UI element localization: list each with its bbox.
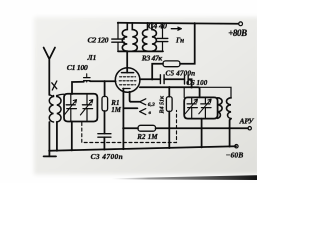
terminal +80V <box>239 22 243 26</box>
IF transformer T2 winding a <box>143 23 148 51</box>
svg-text:R3 47к: R3 47к <box>141 54 163 63</box>
wire anode out <box>140 78 160 80</box>
capacitor C3 <box>98 134 111 150</box>
wire tank top to grid coupling <box>72 82 84 94</box>
wire tank2 left stub <box>183 87 185 97</box>
tube anode <box>122 51 134 72</box>
tank box (right tuned circuit loop) <box>184 97 217 118</box>
svg-text:+80В: +80В <box>228 28 247 38</box>
IF transformer T2 winding b <box>152 23 157 51</box>
capacitor C4 <box>157 23 168 52</box>
wire R1 to C3 <box>104 111 106 134</box>
bottom bus wire <box>49 146 236 150</box>
scan shadow wedge <box>0 0 1 1</box>
coil L3 (right side of tank box) <box>218 98 223 119</box>
coil L4 coupling winding <box>227 97 232 118</box>
bottom rail of IF transformer <box>118 50 163 52</box>
svg-text:R2 1М: R2 1М <box>136 133 158 141</box>
wire C6 drop <box>188 79 191 87</box>
svg-text:R4 51к: R4 51к <box>160 95 166 115</box>
dashed gang link <box>82 111 177 143</box>
wire grid to winding2 top <box>200 87 231 97</box>
tank box (left tuned circuit loop) <box>64 94 97 122</box>
variable capacitor C (right section a) <box>185 97 197 118</box>
AGC wire to ARU terminal <box>156 127 248 129</box>
tube cathode <box>123 88 130 90</box>
svg-text:АРУ: АРУ <box>239 117 255 126</box>
ground <box>44 155 56 157</box>
svg-text:1М: 1М <box>111 106 122 114</box>
coil L1 antenna winding <box>49 96 53 123</box>
variable capacitor C (second section) <box>80 94 92 122</box>
resistor R2 <box>138 125 156 131</box>
variable capacitor C (right section b) <box>199 97 211 118</box>
wire R3 left to screen wire <box>152 64 163 79</box>
heater leads with arrows <box>123 92 145 115</box>
coil L2 grid winding <box>57 96 61 123</box>
wire tank2 bottom to bus <box>201 119 203 148</box>
svg-text:−60В: −60В <box>226 151 244 160</box>
svg-text:С4 40: С4 40 <box>148 21 167 30</box>
svg-text:6,3: 6,3 <box>148 102 155 108</box>
IF transformer T1 winding b <box>132 23 137 51</box>
antenna W1 <box>44 48 57 96</box>
terminal -60V <box>235 145 238 148</box>
wire antenna to L1 top <box>49 95 53 97</box>
grid wire from tube <box>140 87 200 97</box>
wire +rail down to R3 <box>180 23 195 63</box>
wire L2 bottom to bus <box>56 122 58 151</box>
resistor R3 <box>163 61 180 67</box>
terminal ARU <box>248 127 251 130</box>
capacitor C5 <box>160 75 164 84</box>
wire L2 top to tank box <box>57 94 64 95</box>
capacitor C2 <box>112 23 124 52</box>
variable capacitor C (left section) <box>64 94 76 122</box>
top rail to +80V <box>118 22 239 25</box>
svg-text:С5 4700п: С5 4700п <box>166 69 196 77</box>
wire cathode down <box>122 89 124 149</box>
wire tank bottom to bus <box>71 122 73 151</box>
wire R2 cathode branch <box>123 127 138 129</box>
tube VL1 envelope <box>115 68 140 93</box>
resistor R1 <box>102 81 108 111</box>
svg-text:С1 100: С1 100 <box>67 63 88 72</box>
wire C5 to C6 <box>164 78 184 80</box>
svg-text:С3 4700п: С3 4700п <box>91 152 124 161</box>
svg-text:С2 120: С2 120 <box>88 35 109 44</box>
scanned photo gray area <box>34 17 260 175</box>
capacitor C6 <box>185 75 189 84</box>
svg-text:Гн: Гн <box>175 36 184 44</box>
svg-text:С6 100: С6 100 <box>186 79 207 87</box>
resistor R4 <box>166 87 172 148</box>
svg-text:Л1: Л1 <box>87 53 97 62</box>
wire ground stem from L1 <box>48 122 50 156</box>
tube grids <box>119 77 136 85</box>
output arrow to Gn <box>171 27 181 30</box>
wire L4 bottom to bus <box>230 119 231 147</box>
IF transformer T1 winding a <box>122 23 127 51</box>
capacitor C1 (grid coupling) <box>84 74 116 82</box>
